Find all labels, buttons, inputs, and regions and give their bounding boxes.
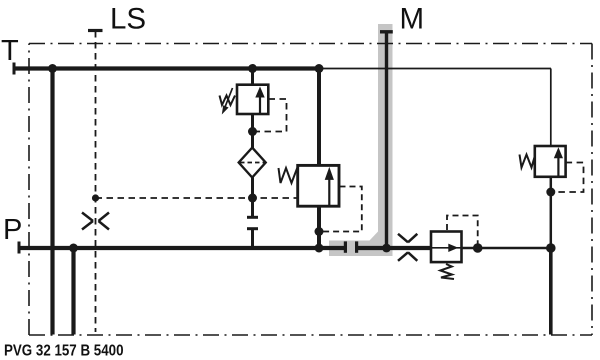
reducer output line bbox=[463, 247, 551, 250]
junction P/drain bbox=[69, 244, 78, 253]
compensator arrow bbox=[328, 179, 330, 206]
compensator pilot line bbox=[323, 187, 362, 232]
junction reducer/tank bbox=[546, 243, 556, 253]
filter F1 bbox=[239, 148, 266, 178]
junction LS/filter bbox=[248, 194, 257, 203]
right relief lower stem bbox=[550, 176, 553, 248]
junction right relief pilot bbox=[546, 188, 555, 197]
junction P/M bbox=[382, 244, 391, 253]
relief valve U1 adjusting arrow bbox=[225, 88, 233, 107]
M gauge line bbox=[385, 32, 388, 247]
P drain line bbox=[71, 248, 75, 335]
U1 lower stem bbox=[251, 114, 254, 150]
P supply line bbox=[18, 246, 345, 250]
svg-text:LS: LS bbox=[110, 2, 146, 35]
filter lower stem bbox=[251, 178, 254, 217]
enclosure border (dash-dot) bbox=[29, 44, 592, 336]
right relief spring bbox=[520, 155, 535, 168]
pressure reducer body bbox=[431, 232, 462, 263]
relief valve U1 supply stem bbox=[251, 69, 254, 87]
plug lower stem bbox=[251, 229, 254, 248]
P line right segment bbox=[357, 246, 430, 250]
svg-text:PVG 32 157 B 5400: PVG 32 157 B 5400 bbox=[4, 343, 124, 360]
plug cap left bar bbox=[344, 241, 347, 252]
plugged port X symbol on P line bbox=[398, 234, 417, 261]
junction relief pilot bbox=[248, 127, 257, 136]
right relief pilot line bbox=[554, 163, 584, 193]
svg-text:T: T bbox=[1, 35, 19, 67]
LS vertical dashed line bbox=[95, 31, 97, 332]
relief valve U1 body bbox=[237, 85, 268, 114]
pressure reducer pilot line bbox=[447, 216, 478, 245]
junction T/relief bbox=[248, 64, 257, 73]
T port end cap bbox=[13, 63, 16, 75]
relief valve U1 arrow bbox=[259, 97, 261, 114]
compensator body bbox=[298, 165, 339, 206]
LS horizontal dashed line bbox=[96, 197, 298, 199]
svg-text:P: P bbox=[3, 214, 22, 246]
LS port cap bbox=[88, 29, 103, 32]
compensator lower stem bbox=[317, 206, 321, 249]
M line gray highlight bbox=[329, 24, 393, 256]
plug (two bars) bbox=[247, 216, 258, 219]
filter mesh dashed line bbox=[240, 162, 265, 164]
T drain line bbox=[50, 69, 54, 335]
plugged port X symbol on LS line bbox=[82, 213, 109, 230]
right drop line bbox=[550, 69, 552, 148]
tank drop line bbox=[549, 248, 553, 335]
junction reducer pilot bbox=[473, 243, 483, 253]
T supply line bbox=[13, 66, 319, 70]
plug cap right bar bbox=[355, 241, 358, 252]
right relief arrow bbox=[557, 157, 559, 176]
relief valve U1 pilot line bbox=[256, 99, 287, 132]
junction compensator pilot bbox=[315, 227, 324, 236]
M gauge line cap bbox=[380, 30, 393, 33]
right relief body bbox=[535, 146, 566, 177]
compensator spring bbox=[279, 168, 298, 183]
pressure reducer spring bbox=[440, 264, 454, 279]
T line thin extension bbox=[319, 68, 551, 70]
pressure reducer flow arrow bbox=[431, 247, 462, 249]
junction LS branch bbox=[92, 194, 99, 201]
compensator supply stem bbox=[317, 69, 321, 167]
junction P/compensator bbox=[315, 244, 324, 253]
relief valve U1 spring bbox=[220, 96, 236, 106]
junction T/drain bbox=[48, 64, 57, 73]
svg-text:M: M bbox=[400, 2, 425, 35]
junction T/compensator bbox=[315, 64, 324, 73]
P port end cap bbox=[18, 242, 21, 254]
